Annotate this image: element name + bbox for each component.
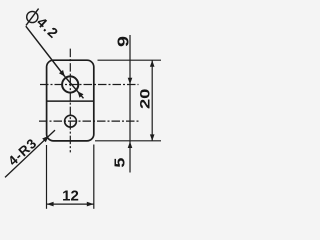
centerline hole top horizontal xyxy=(40,84,139,86)
inner edge line xyxy=(47,100,94,102)
leader 4-R3 xyxy=(5,130,55,177)
centerline hole bottom horizontal xyxy=(39,120,139,122)
extension line bottom edge xyxy=(95,140,161,142)
arrow 12 right xyxy=(87,202,94,207)
diameter line through hole xyxy=(65,77,84,99)
extension line top edge xyxy=(98,59,162,61)
arrow 5 up xyxy=(128,142,133,149)
leader phi4.2 xyxy=(26,26,65,76)
extension line left edge down xyxy=(46,145,48,209)
hole top xyxy=(62,76,78,92)
label phi4.2 xyxy=(26,9,39,26)
dimension line 9-5 vertical xyxy=(129,35,131,173)
plate outline xyxy=(47,60,94,141)
svg-text:12: 12 xyxy=(62,188,79,205)
extension line right edge down xyxy=(93,145,95,209)
centerline vertical xyxy=(69,49,71,153)
arrow phi42 upper xyxy=(59,70,65,77)
arrow 4R3 xyxy=(42,136,49,142)
dimension line 12 xyxy=(47,203,94,205)
dimension line 20 xyxy=(151,60,153,141)
arrow 20 bottom xyxy=(150,134,155,141)
svg-text:20: 20 xyxy=(138,89,153,110)
arrow 9 down xyxy=(128,78,133,85)
arrow 12 left xyxy=(47,202,54,207)
hole bottom xyxy=(65,115,77,127)
svg-text:9: 9 xyxy=(116,36,133,47)
svg-text:5: 5 xyxy=(112,158,128,168)
arrow 20 top xyxy=(150,60,155,67)
arrow phi42 lower xyxy=(78,91,84,97)
